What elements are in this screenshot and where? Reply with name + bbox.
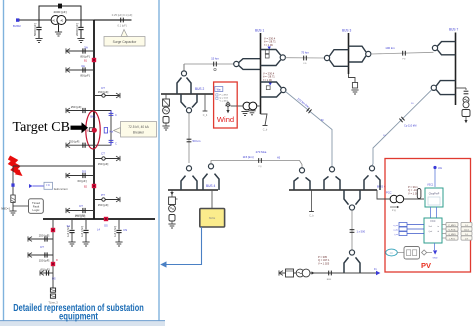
svg-text:BUS 1: BUS 1 <box>255 29 264 33</box>
svg-text:P = 49.8: P = 49.8 <box>220 95 229 97</box>
svg-text:C_b: C_b <box>309 215 314 218</box>
wire to surge capacitor <box>94 19 132 21</box>
svg-text:2000 [pF]: 2000 [pF] <box>53 10 66 14</box>
breaker BRK-A <box>92 58 96 62</box>
svg-text:P Q: P Q <box>392 210 396 212</box>
wire Vdc to converter <box>434 169 436 187</box>
series reactor PV <box>417 189 421 199</box>
wire BUS2 to BUS1 tie <box>183 64 185 71</box>
PV transformer <box>390 195 398 203</box>
external grid source chain <box>279 270 283 275</box>
line 110km diagonal <box>373 90 432 164</box>
source chain below BUS4 <box>170 192 173 195</box>
wire bell PCC-3 riser <box>372 164 373 166</box>
wire transformer top loop <box>39 6 81 20</box>
wire transformer to converter <box>404 198 424 200</box>
arrester A2 <box>85 219 87 230</box>
branch 60pF feeder <box>40 272 53 274</box>
svg-text:150 [pF]: 150 [pF] <box>39 259 50 263</box>
line 120km diagonal <box>286 92 333 167</box>
svg-text:270 Mva: 270 Mva <box>256 150 267 154</box>
svg-text:250 [pF]: 250 [pF] <box>39 234 50 238</box>
disconnector stub BUS1 bottom <box>261 114 268 126</box>
breaker DS on lower bus <box>104 217 108 221</box>
capacitor grading top <box>109 111 114 116</box>
wire 115km line <box>211 161 302 168</box>
horn BUS7 lower left <box>431 85 436 90</box>
svg-text:75 km: 75 km <box>301 51 309 55</box>
callout surge capacitor label <box>121 30 128 37</box>
horn BUS3 left <box>324 55 329 60</box>
cable comp 15km <box>214 62 217 67</box>
branch stray cap 80pF upper <box>66 50 94 52</box>
lower bus B2 <box>43 218 155 220</box>
svg-text:C: C <box>115 142 117 146</box>
arrester A3 <box>118 219 120 230</box>
fault resistor RF <box>11 195 15 203</box>
arrester A1 <box>71 219 73 230</box>
svg-text:60 [pF]: 60 [pF] <box>78 179 87 183</box>
wire main horizontal 25kV <box>19 19 94 21</box>
substation equivalent block yellow <box>200 209 225 228</box>
horn BUS1 right upper <box>261 50 281 66</box>
svg-text:Ma: Ma <box>110 130 114 134</box>
source chain below BUS2 <box>165 94 167 99</box>
svg-text:DS: DS <box>104 224 108 228</box>
breaker BRK-B <box>92 184 96 188</box>
PQ arrows PV <box>390 206 397 208</box>
wire VSC to controller <box>430 207 432 218</box>
substation window frame <box>4 0 160 322</box>
node Vdc <box>433 166 436 169</box>
wire to substation block <box>211 190 213 209</box>
svg-text:150 [pF]: 150 [pF] <box>98 162 109 166</box>
svg-text:Q_MW1: Q_MW1 <box>448 234 456 236</box>
svg-text:equipment: equipment <box>59 311 98 323</box>
node fault blue <box>11 183 14 186</box>
svg-text:DS: DS <box>124 228 128 232</box>
svg-text:60 [pF]: 60 [pF] <box>41 268 50 272</box>
transformer bell BUS2 bottom <box>181 94 197 108</box>
ground G1 <box>35 39 42 43</box>
svg-text:SM-E: SM-E <box>209 216 216 220</box>
load chain BUS7 <box>456 87 467 89</box>
transformer bell PCC-1 <box>299 168 304 173</box>
horn BUS7 upper left <box>432 45 437 50</box>
svg-text:BRK: BRK <box>327 279 332 281</box>
svg-text:1 x 500: 1 x 500 <box>357 229 366 233</box>
svg-text:5000 [pF]: 5000 [pF] <box>33 23 37 36</box>
meter cluster BUS1 lower <box>269 83 272 86</box>
svg-text:f = 1.09: f = 1.09 <box>264 43 273 47</box>
wire timed fault link <box>13 205 29 207</box>
ground fault <box>9 211 16 215</box>
svg-text:C_b: C_b <box>263 129 268 132</box>
svg-text:72.5 kV, 40 kA: 72.5 kV, 40 kA <box>128 125 149 129</box>
callout 72.5kV breaker label <box>114 128 121 134</box>
svg-text:D: D <box>56 259 58 262</box>
svg-text:BUS 2: BUS 2 <box>195 87 204 91</box>
svg-text:P_MW1: P_MW1 <box>448 225 456 227</box>
svg-text:100 km: 100 km <box>385 46 395 50</box>
wire CB grading branch <box>94 111 111 146</box>
svg-text:Breaker: Breaker <box>133 131 145 135</box>
wind turbine glyph <box>226 103 230 107</box>
bus BUS1 bar <box>260 33 262 114</box>
capacitor C1 5000 pF <box>38 20 40 27</box>
node arrow PV feeder end <box>376 271 380 275</box>
controller output pins <box>442 225 446 239</box>
svg-text:PT: PT <box>101 193 105 197</box>
svg-text:tb: tb <box>438 230 440 233</box>
svg-text:CT: CT <box>101 152 105 156</box>
svg-text:Target CB: Target CB <box>13 120 70 135</box>
svg-text:FD: FD <box>403 59 406 61</box>
line 75km <box>285 57 324 59</box>
svg-text:80 [pF]: 80 [pF] <box>80 55 90 59</box>
svg-text:DS: DS <box>52 277 56 281</box>
ground stub BUS3 <box>349 74 356 83</box>
controller input pins <box>407 225 424 234</box>
block timed fault logic <box>29 199 44 214</box>
svg-text:CT: CT <box>79 204 83 208</box>
svg-text:FD: FD <box>304 63 307 65</box>
svg-text:C_b: C_b <box>203 114 208 117</box>
svg-text:BUS 4: BUS 4 <box>206 184 215 188</box>
svg-text:Q = 0.62: Q = 0.62 <box>220 98 229 100</box>
cable 50km vertical <box>188 113 190 163</box>
svg-text:Logic: Logic <box>33 208 40 212</box>
bus BUS7 bar <box>455 33 457 106</box>
window bottom status bar <box>0 321 165 326</box>
svg-text:80 [pF]: 80 [pF] <box>80 74 90 78</box>
svg-text:2000 [pF]: 2000 [pF] <box>75 23 79 36</box>
svg-text:DS: DS <box>82 170 86 174</box>
bus BUS3 bar <box>348 33 350 74</box>
wire wind box to transformer <box>231 105 237 107</box>
branch stray cap 250pF above CB <box>66 110 94 112</box>
highlight ellipse Target CB <box>86 111 100 149</box>
svg-text:NBC=1: NBC=1 <box>1 207 10 211</box>
transformer bell PV down <box>344 190 360 205</box>
line 100km <box>371 52 434 54</box>
oscillator ellipse <box>386 249 398 256</box>
svg-text:SA: SA <box>67 225 71 228</box>
svg-text:BUS 3: BUS 3 <box>342 29 351 33</box>
PWM block <box>404 247 420 260</box>
svg-text:V = 1.025: V = 1.025 <box>318 261 330 265</box>
horn BUS1 left <box>234 61 239 66</box>
branch stray cap 250pF below CB <box>66 144 94 146</box>
main vertical bus B1 <box>93 20 95 219</box>
PV feeder bus <box>279 272 376 274</box>
capacitor grading bottom <box>109 140 114 145</box>
meter cluster BUS1 upper <box>268 47 271 50</box>
breaker feeder bottom <box>51 262 55 266</box>
svg-text:I_PO1: I_PO1 <box>449 238 456 240</box>
svg-text:1e4 [pF]: 1e4 [pF] <box>75 213 85 217</box>
svg-text:FCC: FCC <box>431 220 436 223</box>
capacitor C-loop 2000 pF <box>58 4 62 9</box>
svg-text:115 [km]: 115 [km] <box>243 155 254 159</box>
svg-text:Wm: Wm <box>217 88 221 91</box>
branch 250pF feeder <box>28 238 53 240</box>
svg-text:BUSM: BUSM <box>13 24 21 28</box>
horn BUS3 right <box>349 46 367 62</box>
transmission line stub TLine_3 <box>50 288 55 292</box>
controller block FCC <box>424 218 442 243</box>
svg-text:Surge Capacitor: Surge Capacitor <box>113 40 138 44</box>
svg-text:3A: 3A <box>81 64 85 68</box>
svg-text:250 [pF]: 250 [pF] <box>71 105 82 109</box>
svg-text:50 km: 50 km <box>193 139 201 143</box>
wire controller to pwm row <box>434 243 436 250</box>
terminator stub PCC <box>311 190 313 212</box>
transformer bell BUS4 line side <box>186 166 191 171</box>
svg-text:PCC: PCC <box>386 191 392 195</box>
wind collector transformer <box>243 102 251 110</box>
cable PV collector <box>351 210 353 249</box>
meter fault current <box>29 184 33 188</box>
branch stray cap 80pF lower <box>66 69 94 71</box>
svg-text:PQ: PQ <box>258 166 261 168</box>
wire gate to node <box>427 252 433 254</box>
feeder drop wire <box>52 219 54 288</box>
svg-text:150 [pF]: 150 [pF] <box>98 203 109 207</box>
transformer bell BUS2 top <box>181 71 186 76</box>
ground G3 <box>77 39 84 43</box>
svg-text:C: C <box>115 113 117 117</box>
node ground PV <box>433 250 437 254</box>
bottom bus PCC bar <box>289 189 377 191</box>
svg-text:BK1: BK1 <box>90 115 96 119</box>
transformer bell PV up <box>349 250 354 255</box>
bus BUS4 bar <box>168 189 218 191</box>
svg-text:0.25 [uF] 0.1 [uF]: 0.25 [uF] 0.1 [uF] <box>112 13 133 17</box>
node N1 source terminal <box>16 18 19 21</box>
svg-text:Qref: Qref <box>429 230 433 233</box>
wire fault horizontal <box>13 165 94 167</box>
annotation arrow to detail box <box>166 227 202 265</box>
svg-text:250 [pF]: 250 [pF] <box>69 140 80 144</box>
svg-text:BUS 7: BUS 7 <box>449 28 458 32</box>
transformer bell BUS4 second <box>208 164 213 169</box>
diamond gate <box>422 250 427 255</box>
svg-text:1e8 [ohm]: 1e8 [ohm] <box>114 226 117 237</box>
transformer T1 <box>51 16 60 25</box>
breaker feeder top <box>51 228 55 232</box>
resistor grading mid <box>104 128 107 134</box>
svg-text:ChopPerP: ChopPerP <box>429 193 440 196</box>
capacitor C2 2000 pF <box>80 20 82 27</box>
horn BUS1 right lower <box>261 82 282 97</box>
svg-text:Vref: Vref <box>429 225 433 228</box>
stub terminator right of BUS2 <box>204 94 206 111</box>
svg-text:3A: 3A <box>84 46 88 50</box>
transformer bell PCC-2 <box>329 167 334 172</box>
svg-text:VSC1: VSC1 <box>427 184 434 187</box>
svg-text:Wind: Wind <box>217 115 234 124</box>
wind model mini source box <box>215 87 223 92</box>
svg-text:1e8 [ohm]: 1e8 [ohm] <box>81 226 84 237</box>
transformer bell PCC-3 <box>369 166 374 171</box>
svg-text:fault current: fault current <box>54 187 68 191</box>
svg-text:V_POI1: V_POI1 <box>448 229 456 231</box>
arrow Target CB <box>71 126 82 130</box>
breaker PV feeder <box>329 271 332 276</box>
ground G2 transformer <box>58 24 60 32</box>
wire bus step into PV <box>377 190 390 199</box>
wire osc to pwm <box>397 252 404 254</box>
wind park red box <box>214 82 238 128</box>
branch 150pF feeder <box>28 254 53 256</box>
svg-text:15 km: 15 km <box>211 57 219 61</box>
PV plant red box <box>385 159 471 273</box>
wire fault vertical <box>12 166 14 211</box>
lightning bolt fault symbol <box>9 158 19 173</box>
svg-text:GND: GND <box>433 258 438 260</box>
svg-text:PV: PV <box>421 261 431 270</box>
svg-text:Cp 110 kM: Cp 110 kM <box>404 124 416 128</box>
svg-text:0.1 [uF]: 0.1 [uF] <box>117 24 126 28</box>
bus BUS2 bar <box>161 93 214 95</box>
svg-text:I:C: I:C <box>47 183 50 187</box>
svg-text:CT: CT <box>40 245 44 249</box>
